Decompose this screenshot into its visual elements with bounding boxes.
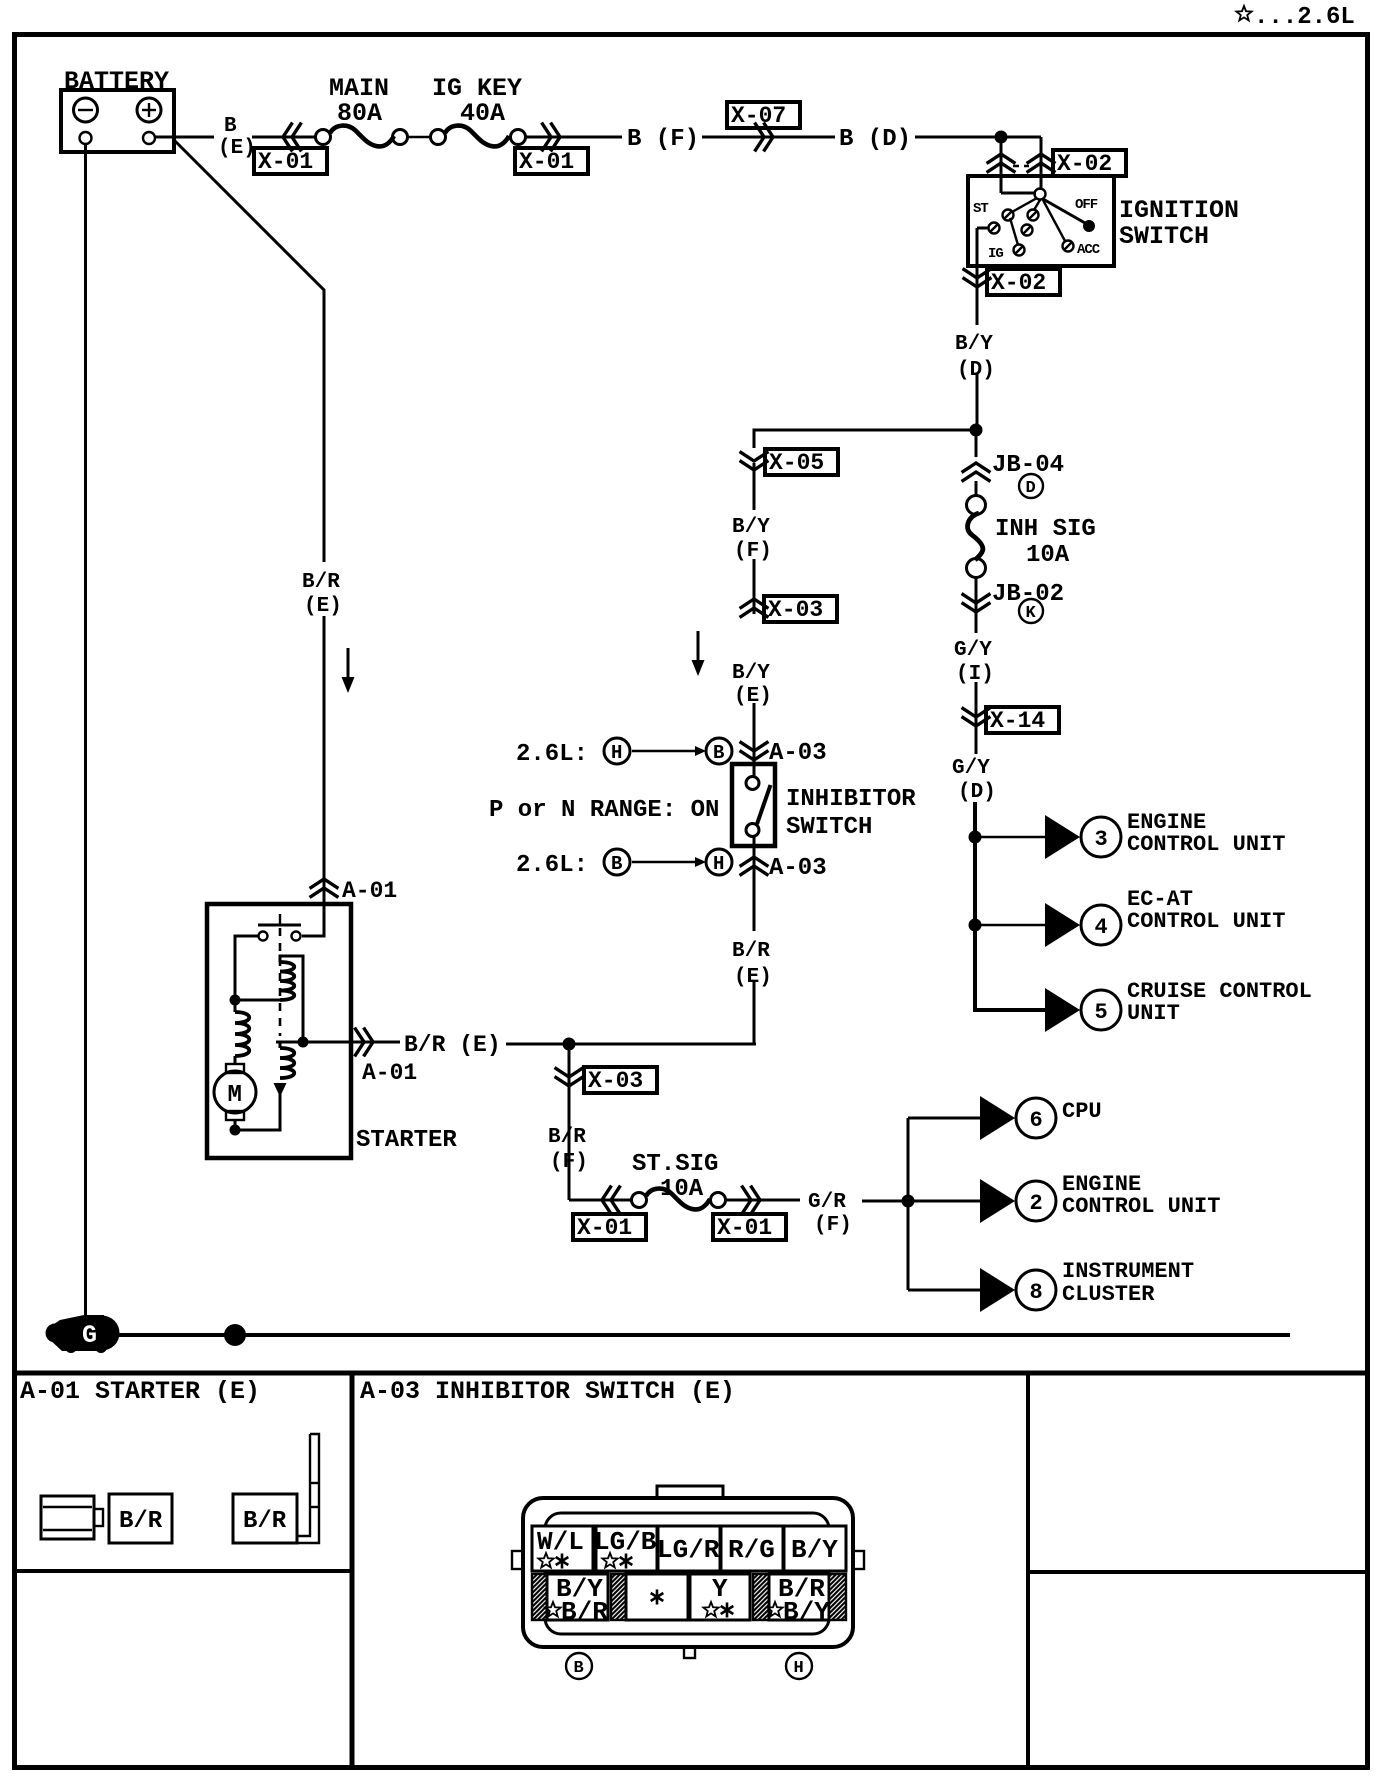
wire to instrument cluster: [908, 1289, 980, 1292]
svg-text:B/Y: B/Y: [791, 1535, 838, 1565]
svg-text:10A: 10A: [1026, 542, 1070, 569]
svg-text:STARTER: STARTER: [356, 1127, 457, 1154]
wire G/Y(I) to X-14: [975, 682, 978, 727]
connector X-05: [741, 453, 767, 471]
CPU pin 6: [980, 1096, 1102, 1140]
svg-text:A-01: A-01: [362, 1060, 417, 1086]
svg-text:Y: Y: [712, 1574, 728, 1604]
wire to ECU 2: [908, 1200, 980, 1203]
svg-text:LG/B: LG/B: [594, 1527, 657, 1557]
svg-text:2.6L:: 2.6L:: [516, 741, 588, 768]
svg-text:CONTROL UNIT: CONTROL UNIT: [1062, 1194, 1220, 1219]
svg-text:X-05: X-05: [769, 450, 824, 476]
svg-text:B/R: B/R: [561, 1597, 608, 1627]
wire to B(F): [526, 136, 622, 139]
A-03 pin LG/B: [594, 1526, 657, 1571]
flow arrow (left): [342, 648, 355, 693]
svg-text:ST: ST: [973, 201, 988, 217]
svg-text:W/L: W/L: [537, 1527, 584, 1557]
fuse INH SIG 10A: [967, 496, 1096, 578]
wire inhibitor to B/R(E): [753, 837, 756, 931]
A-03 pin B/Y-B/R: [545, 1574, 608, 1627]
svg-text:CONTROL UNIT: CONTROL UNIT: [1127, 832, 1285, 857]
A-01 terminal icon: [41, 1496, 103, 1539]
svg-text:B (F): B (F): [627, 126, 699, 153]
junction on B/R(E) run: [563, 1038, 576, 1051]
svg-text:B: B: [611, 853, 622, 875]
connector X-07: [727, 102, 800, 129]
svg-text:K: K: [1026, 604, 1037, 623]
svg-text:X-02: X-02: [1057, 151, 1112, 177]
wire B(F) to B(D): [702, 136, 835, 139]
junction to ECU: [969, 831, 982, 844]
wire to CPU: [908, 1117, 980, 1120]
flow arrow (middle): [692, 631, 705, 676]
wire junction down to X-03: [568, 1044, 571, 1200]
wire G/Y(D) branch to control units: [973, 802, 977, 1010]
svg-text:B/Y: B/Y: [732, 516, 770, 539]
wire ignition to B/Y(D): [976, 266, 979, 325]
A-03 hatched blank 4: [829, 1574, 846, 1620]
svg-text:H: H: [611, 742, 622, 764]
svg-text:UNIT: UNIT: [1127, 1001, 1180, 1026]
connector X-14: [963, 709, 989, 727]
svg-text:B/R (E): B/R (E): [404, 1032, 501, 1058]
svg-text:INH SIG: INH SIG: [995, 516, 1096, 543]
svg-text:2.6L:: 2.6L:: [516, 852, 588, 879]
wire B/Y(E) to inhibitor switch: [753, 703, 756, 777]
connector JB-04: [963, 463, 989, 481]
svg-text:3: 3: [1095, 827, 1108, 852]
svg-text:B/R: B/R: [732, 940, 770, 963]
2.6L pin note (top): [516, 738, 732, 768]
svg-text:X-01: X-01: [258, 149, 313, 175]
connector A-01 (top): [311, 879, 337, 897]
svg-text:LG/R: LG/R: [657, 1535, 720, 1565]
connector X-03 (lower): [556, 1069, 582, 1087]
svg-text:X-01: X-01: [519, 149, 574, 175]
wire JB-02 to G/Y(I): [975, 612, 978, 633]
svg-text:H: H: [794, 1659, 804, 1678]
connector X-01 (right of fuses): [543, 124, 561, 150]
svg-text:A-03: A-03: [769, 740, 827, 767]
svg-text:A-03 INHIBITOR SWITCH (E): A-03 INHIBITOR SWITCH (E): [360, 1377, 735, 1406]
connector JB-02: [963, 595, 989, 613]
A-03 connector housing: [512, 1486, 864, 1658]
A-03 pin B/R-B/Y: [767, 1574, 830, 1627]
connector X-01 (lower left): [602, 1187, 620, 1213]
svg-text:A-01: A-01: [342, 878, 397, 904]
connector A-01 (output): [356, 1029, 374, 1055]
svg-text:ACC: ACC: [1077, 242, 1101, 258]
svg-text:A-03: A-03: [769, 855, 827, 882]
instrument cluster pin 8: [980, 1259, 1194, 1312]
svg-text:IGNITION: IGNITION: [1119, 196, 1239, 225]
svg-text:(D): (D): [958, 781, 996, 804]
fuse IG KEY 40A: [431, 74, 526, 146]
wire elbow to cruise: [975, 1008, 1045, 1010]
svg-text:D: D: [1026, 479, 1036, 498]
branch junction: [902, 1195, 915, 1208]
svg-text:INHIBITOR: INHIBITOR: [786, 786, 916, 813]
svg-text:(E): (E): [304, 595, 342, 618]
svg-text:6: 6: [1030, 1108, 1043, 1133]
svg-text:(F): (F): [814, 1214, 852, 1237]
svg-text:CPU: CPU: [1062, 1099, 1102, 1124]
svg-text:CLUSTER: CLUSTER: [1062, 1282, 1155, 1307]
wire branch left: [754, 430, 976, 448]
svg-text:B/R: B/R: [302, 571, 340, 594]
table grid: [12, 1373, 1368, 1766]
A-01 pin B/R (solenoid lead): [233, 1494, 297, 1543]
svg-text:ST.SIG: ST.SIG: [632, 1151, 718, 1178]
wire right column down: [975, 430, 978, 457]
A-03 pin B/Y: [784, 1526, 846, 1571]
EC-AT control unit pin 4: [1045, 887, 1285, 947]
A-03 pin W/L: [532, 1526, 593, 1571]
wire elbow to ST.SIG fuse: [569, 1199, 632, 1202]
wire fuse to JB-02: [975, 578, 978, 612]
A-03 hatched blank 2: [611, 1574, 626, 1620]
starter M1: [207, 902, 351, 1158]
wire G/R to branch junction: [862, 1200, 908, 1203]
connector X-03 (middle): [741, 599, 767, 617]
svg-text:H: H: [713, 853, 724, 875]
wire B/Y(D) down to junction: [976, 374, 979, 430]
svg-text:B/R: B/R: [119, 1508, 163, 1535]
wire to EC-AT arrow: [975, 924, 1045, 926]
A-03 pin LG/R: [657, 1526, 720, 1571]
engine control unit pin 3: [1045, 810, 1285, 859]
svg-text:X-03: X-03: [588, 1068, 643, 1094]
branch vertical: [907, 1118, 910, 1290]
svg-text:4: 4: [1095, 915, 1108, 940]
svg-text:G: G: [82, 1321, 97, 1350]
pin D note: [1019, 474, 1043, 498]
title 2.6L note: [1236, 4, 1354, 31]
connector X-01 (left): [283, 124, 301, 150]
svg-text:X-01: X-01: [577, 1215, 632, 1241]
svg-text:B: B: [224, 115, 237, 138]
svg-text:B/R: B/R: [548, 1126, 586, 1149]
battery B1: [61, 67, 174, 152]
svg-text:40A: 40A: [460, 99, 505, 128]
A-01 bracket icon: [297, 1434, 319, 1543]
engine control unit pin 2: [980, 1172, 1220, 1223]
svg-text:B/R: B/R: [243, 1508, 287, 1535]
wire battery to starter (diagonal): [174, 140, 324, 562]
svg-text:5: 5: [1095, 1000, 1108, 1025]
wire starter output B/R(E): [351, 1041, 400, 1044]
wire to MAIN fuse: [252, 136, 316, 139]
svg-text:A-01 STARTER (E): A-01 STARTER (E): [20, 1377, 260, 1406]
A-03 pin circle H: [786, 1653, 812, 1679]
wire between fuses: [408, 136, 430, 138]
ground line: [80, 1333, 1290, 1337]
ground (body ground symbol): [46, 1315, 120, 1353]
inhibitor switch S2: [732, 764, 775, 846]
A-03 pin asterisk: [626, 1574, 688, 1620]
svg-text:M: M: [228, 1082, 242, 1109]
svg-text:...2.6L: ...2.6L: [1254, 4, 1355, 31]
connector A-03 (top): [741, 743, 767, 761]
junction node: [970, 424, 983, 437]
svg-text:G/Y: G/Y: [954, 639, 992, 662]
cruise control unit pin 5: [1045, 979, 1312, 1032]
svg-text:P or N RANGE: ON: P or N RANGE: ON: [489, 797, 719, 824]
wire fuse to G/R(F): [726, 1199, 800, 1202]
svg-text:CONTROL UNIT: CONTROL UNIT: [1127, 909, 1285, 934]
svg-text:G/R: G/R: [808, 1191, 846, 1214]
wire battery positive B(E): [155, 136, 214, 139]
wire battery negative to ground: [84, 144, 87, 1322]
svg-text:B: B: [713, 742, 724, 764]
fuse MAIN 80A: [316, 74, 408, 146]
svg-text:(E): (E): [218, 137, 256, 160]
wire X-14 to G/Y(D): [975, 727, 978, 754]
wire to junction: [506, 1043, 756, 1046]
svg-text:SWITCH: SWITCH: [1119, 222, 1209, 251]
connector X-01 (lower right): [743, 1187, 761, 1213]
svg-text:OFF: OFF: [1075, 197, 1098, 213]
A-03 pin circle B: [566, 1653, 592, 1679]
A-01 pin B/R (motor lead): [109, 1494, 172, 1543]
svg-text:SWITCH: SWITCH: [786, 814, 872, 841]
svg-text:X-03: X-03: [768, 597, 823, 623]
svg-text:B/Y: B/Y: [732, 662, 770, 685]
junction to EC-AT: [969, 919, 982, 932]
wire B(D) to ignition switch: [915, 136, 1041, 139]
wire B/Y(F) to X-03: [753, 559, 756, 614]
svg-text:X-07: X-07: [731, 103, 786, 129]
svg-text:B: B: [574, 1659, 584, 1678]
A-03 pin Y: [690, 1574, 750, 1620]
svg-text:INSTRUMENT: INSTRUMENT: [1062, 1259, 1194, 1284]
fuse ST.SIG 10A: [632, 1151, 726, 1209]
connector A-03 (bottom): [741, 857, 767, 875]
svg-text:8: 8: [1030, 1280, 1043, 1305]
svg-text:G/Y: G/Y: [952, 757, 990, 780]
wire B/R(E) to starter: [323, 616, 326, 902]
ground junction node: [224, 1324, 246, 1346]
svg-text:B (D): B (D): [839, 126, 911, 153]
wire to ECU arrow: [975, 836, 1045, 838]
connector X-02 (top): [1053, 150, 1126, 177]
A-03 hatched blank 3: [753, 1574, 769, 1620]
junction above ignition switch: [995, 131, 1008, 144]
wire JB-04 to fuse: [975, 481, 978, 496]
svg-text:B/Y: B/Y: [955, 333, 993, 356]
pin K note: [1019, 599, 1043, 623]
wire B/R(E) down to horizontal run: [570, 982, 754, 1044]
ignition switch S1: [968, 137, 1114, 266]
A-03 hatched blank 1: [532, 1574, 547, 1620]
svg-text:2: 2: [1030, 1191, 1043, 1216]
A-03 pin R/G: [721, 1526, 783, 1571]
svg-text:X-14: X-14: [990, 708, 1045, 734]
wire X-05 to B/Y(F): [753, 463, 756, 510]
svg-text:R/G: R/G: [728, 1535, 775, 1565]
svg-text:B/Y: B/Y: [783, 1597, 830, 1627]
2.6L pin note (bottom): [516, 849, 732, 879]
svg-text:X-02: X-02: [991, 270, 1046, 296]
connector X-02 (bottom): [964, 270, 990, 288]
svg-text:X-01: X-01: [717, 1215, 772, 1241]
svg-text:IG: IG: [988, 246, 1003, 262]
svg-text:(F): (F): [550, 1151, 588, 1174]
